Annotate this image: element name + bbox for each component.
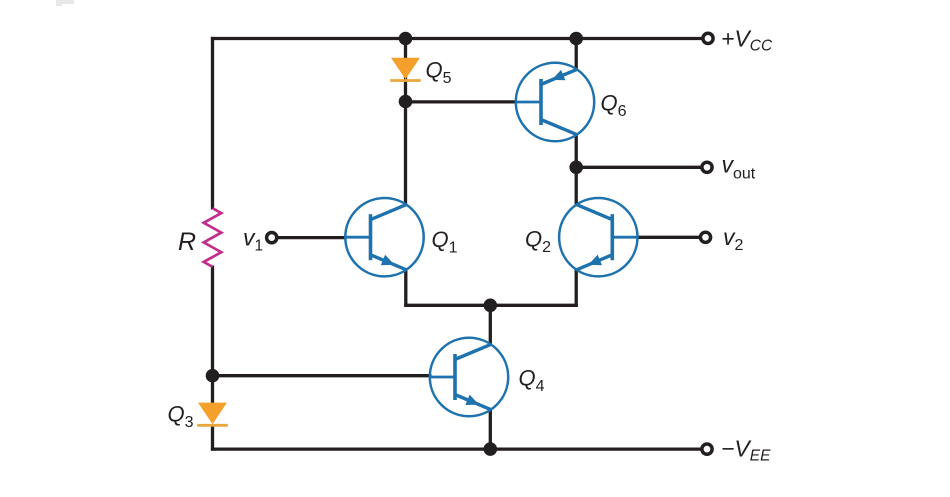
- junction vout node: [569, 161, 583, 175]
- svg-text:v2: v2: [723, 224, 744, 254]
- diode Q3: [198, 403, 227, 425]
- wire Q1 emitter vertical: [404, 269, 407, 307]
- transistor Q1: [345, 198, 423, 276]
- diode Q5: [391, 58, 420, 80]
- cropped glyph remnant top-left: [56, 0, 74, 6]
- wire left vertical from resistor R to diode Q3: [211, 266, 214, 405]
- junction emitters tail node: [484, 299, 498, 313]
- transistor Q4: [430, 338, 508, 416]
- junction below diode Q5: [399, 95, 413, 109]
- wire emitters horizontal: [404, 304, 578, 307]
- terminal +VCC: [703, 33, 713, 43]
- junction top rail / Q5 branch: [399, 32, 413, 46]
- wire top supply rail: [211, 37, 702, 40]
- wire Q6 emitter to top rail: [575, 39, 578, 71]
- wire tail node to Q4 collector: [489, 305, 492, 346]
- wire from node below Q5 to Q6 base: [406, 100, 518, 103]
- wire v1 to Q1 base: [277, 236, 346, 239]
- svg-text:v1: v1: [243, 225, 263, 255]
- transistor Q6: [516, 63, 594, 141]
- wire left vertical from top rail to resistor R: [211, 37, 214, 210]
- junction bottom rail / Q4 emitter: [484, 442, 498, 456]
- terminal v1: [267, 233, 277, 243]
- resistor R: [204, 208, 222, 267]
- terminal v2: [700, 232, 710, 242]
- svg-text:Q2: Q2: [525, 227, 551, 257]
- svg-text:Q3: Q3: [168, 402, 194, 432]
- wire left vertical from diode Q3 to bottom rail: [211, 424, 214, 451]
- junction left rail / Q4 base: [206, 369, 220, 383]
- transistor Q2: [559, 198, 637, 276]
- wire Q4 emitter to bottom rail: [489, 409, 492, 450]
- terminal -VEE: [702, 444, 712, 454]
- svg-text:Q1: Q1: [432, 227, 458, 257]
- wire Q4 base from left rail: [213, 374, 432, 377]
- svg-text:Q4: Q4: [519, 366, 545, 396]
- wire vout stub: [576, 166, 700, 169]
- terminal vout: [702, 162, 712, 172]
- svg-text:Q6: Q6: [601, 91, 627, 121]
- svg-text:vout: vout: [722, 152, 756, 183]
- svg-text:−VEE: −VEE: [721, 436, 771, 465]
- wire Q2 base to v2: [637, 236, 700, 239]
- wire Q1 collector vertical: [404, 102, 407, 206]
- wire bottom supply rail: [211, 447, 702, 450]
- wire diode Q5 branch vertical: [404, 39, 407, 102]
- svg-text:+VCC: +VCC: [721, 26, 773, 55]
- svg-text:Q5: Q5: [426, 58, 452, 88]
- junction top rail / Q6 emitter: [569, 32, 583, 46]
- wire Q6 collector down through vout node to Q2 collector: [575, 134, 578, 206]
- svg-text:R: R: [178, 228, 196, 256]
- wire Q2 emitter vertical: [575, 269, 578, 307]
